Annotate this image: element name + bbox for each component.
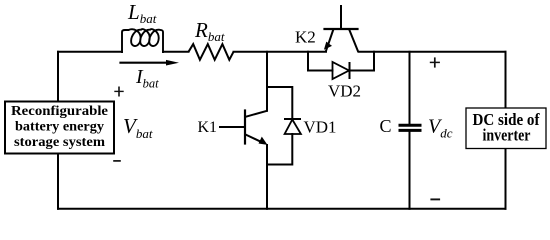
wire resistor to K2 emitter bbox=[234, 51, 327, 53]
minus sign dc bbox=[430, 198, 440, 200]
transistor K2 emitter leg bbox=[326, 29, 334, 51]
left box: reconfigurable battery energy storage system bbox=[5, 102, 114, 154]
wire capacitor lower bbox=[409, 132, 411, 209]
inductor L1 bbox=[122, 29, 163, 52]
wire VD1 bottom branch bbox=[267, 134, 292, 165]
svg-text:K1: K1 bbox=[198, 119, 218, 136]
transistor K2 gate lead bbox=[340, 6, 342, 29]
svg-text:Vdc: Vdc bbox=[428, 116, 453, 141]
wire VD2 left side bbox=[308, 52, 333, 71]
diode VD2 triangle bbox=[333, 62, 350, 79]
svg-text:Rbat: Rbat bbox=[194, 18, 225, 44]
svg-text:inverter: inverter bbox=[483, 126, 531, 145]
svg-text:VD2: VD2 bbox=[328, 82, 361, 101]
transistor K1 base bar bbox=[244, 111, 246, 144]
wire top-left segment bbox=[58, 51, 122, 53]
diode VD1 cathode bar bbox=[284, 118, 301, 120]
svg-text:K2: K2 bbox=[295, 28, 316, 47]
transistor K1 base lead bbox=[220, 126, 245, 128]
wire VD2 right side bbox=[350, 52, 375, 71]
svg-text:Ibat: Ibat bbox=[135, 66, 159, 91]
capacitor C top plate bbox=[399, 124, 422, 127]
plus sign dc bbox=[430, 57, 440, 67]
wire left vertical lower bbox=[57, 154, 59, 209]
current arrow I_bat bbox=[119, 60, 179, 66]
svg-text:VD1: VD1 bbox=[304, 118, 337, 137]
svg-text:C: C bbox=[380, 116, 392, 136]
wire right vertical lower bbox=[505, 149, 507, 209]
svg-text:Reconfigurable: Reconfigurable bbox=[11, 104, 108, 119]
transistor K2 base bar bbox=[325, 28, 358, 30]
resistor R_bat zigzag bbox=[189, 44, 234, 60]
transistor K1 emitter arrowhead bbox=[259, 137, 268, 145]
wire K1 emitter to bottom bbox=[266, 145, 268, 209]
transistor K1 emitter leg bbox=[246, 135, 263, 143]
wire left vertical upper bbox=[57, 52, 59, 101]
transistor K2 emitter arrowhead bbox=[324, 42, 332, 50]
minus sign battery bbox=[113, 160, 121, 162]
svg-text:Lbat: Lbat bbox=[127, 0, 157, 26]
capacitor C bottom plate bbox=[399, 129, 422, 132]
plus sign battery bbox=[114, 87, 123, 97]
svg-text:storage system: storage system bbox=[14, 135, 105, 150]
wire bottom bbox=[58, 208, 506, 210]
wire VD1 top branch bbox=[267, 87, 292, 119]
svg-text:battery energy: battery energy bbox=[15, 120, 104, 135]
wire K2 to right corner bbox=[359, 51, 506, 53]
diode VD1 triangle bbox=[285, 120, 301, 135]
wire right vertical upper bbox=[505, 52, 507, 108]
svg-text:Vbat: Vbat bbox=[123, 114, 153, 141]
wire capacitor upper bbox=[409, 52, 411, 124]
right box: DC side of inverter bbox=[466, 108, 546, 149]
wire inductor to resistor bbox=[163, 51, 189, 53]
transistor K2 collector leg bbox=[349, 29, 358, 52]
node: K1 branch upper wire bbox=[266, 52, 268, 111]
diode VD2 cathode bar bbox=[349, 62, 351, 79]
transistor K1 collector leg bbox=[246, 111, 268, 117]
